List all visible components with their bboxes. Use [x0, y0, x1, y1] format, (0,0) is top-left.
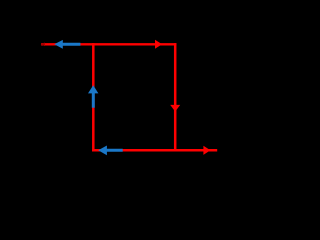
arrowhead red down (right vertical, increasing path): [170, 105, 180, 112]
wire right vertical: [174, 43, 177, 151]
wire bottom horizontal: [92, 149, 217, 152]
arrowhead left end (small, exit of decreasing path): [41, 43, 45, 47]
arrowhead red right (bottom line, increasing path exit): [203, 146, 210, 155]
wire top horizontal: [41, 43, 176, 45]
arrow blue left (bottom line, decreasing path): [98, 146, 123, 156]
wire left vertical: [92, 43, 95, 151]
arrowhead red right (top line, increasing path): [155, 40, 162, 49]
arrow blue up (left vertical, decreasing path): [88, 85, 98, 108]
arrow blue left (top line, decreasing path): [54, 40, 80, 49]
